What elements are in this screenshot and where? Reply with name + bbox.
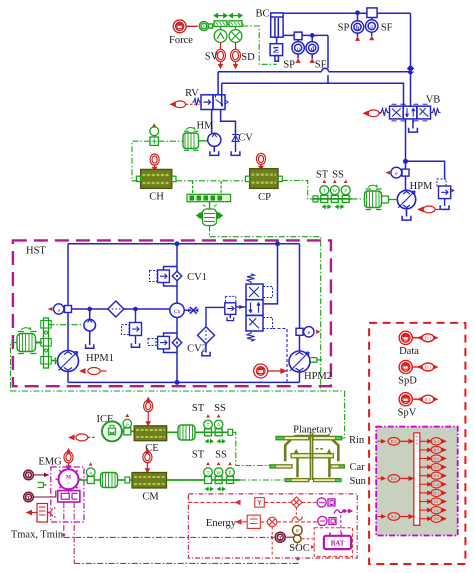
charge pump	[84, 307, 96, 348]
planetary gear set	[270, 433, 344, 482]
svg-text:SOC: SOC	[289, 543, 309, 554]
controller block CP	[245, 169, 282, 189]
EMG control box	[51, 467, 84, 522]
force source Force	[173, 20, 198, 33]
vertical links row1-row2	[272, 507, 296, 556]
sensor SF top right	[366, 8, 378, 36]
shaft EMG to motor row2	[79, 479, 101, 481]
motor EMG	[56, 466, 82, 492]
svg-text:J:3: J:3	[434, 516, 439, 521]
wire green dash engine to bottom line	[11, 343, 18, 391]
double arrows below shaft	[323, 205, 344, 208]
mux output S:1	[420, 455, 446, 462]
wire green dash CH to CP	[176, 180, 245, 182]
svg-text:θ: θ	[296, 529, 299, 535]
svg-text:SS: SS	[332, 170, 344, 181]
pilot valve small	[225, 296, 246, 320]
signal ellipse A1 to ICE	[70, 434, 97, 441]
hydraulic motor HM (green)	[183, 127, 208, 150]
svg-text:M: M	[272, 46, 281, 53]
shaft row1	[201, 429, 233, 435]
svg-text:C:4: C:4	[433, 482, 439, 487]
svg-text:S:1: S:1	[391, 514, 397, 519]
svg-text:SpV: SpV	[398, 408, 417, 419]
svg-text:SF: SF	[381, 23, 393, 34]
signal ellipse above CP	[256, 153, 265, 170]
pump circle of HM	[208, 133, 221, 155]
arrowheads magenta	[62, 534, 66, 537]
filter diamond	[108, 301, 124, 317]
mass block SD sensor assembly	[229, 14, 244, 43]
svg-text:Data: Data	[399, 346, 419, 357]
wire blue HST main loop	[68, 242, 300, 384]
sensor p row2	[86, 468, 95, 484]
sensor W	[330, 186, 339, 203]
relief valve RV	[192, 95, 235, 134]
speed sensor on HM shaft	[150, 127, 159, 146]
row1 gain Y	[188, 497, 316, 508]
orifice Ch	[170, 303, 184, 317]
mux output H:1	[420, 489, 446, 496]
svg-text:D:1: D:1	[391, 476, 397, 481]
green shaft stub HPM2	[311, 358, 323, 363]
signal ellipse V1	[171, 101, 200, 108]
wire blue main top line	[283, 12, 411, 14]
SpD source	[399, 360, 437, 373]
accumulator component	[197, 202, 223, 226]
dashed links to BAT	[297, 539, 314, 548]
mux output C:4	[420, 481, 446, 488]
MUX sage panel	[376, 427, 458, 536]
svg-text:F: F	[202, 25, 205, 30]
svg-text:S:2: S:2	[434, 465, 439, 470]
engine block in HST	[17, 327, 42, 353]
sensor e2 near HPM2	[296, 327, 314, 337]
svg-text:B:1: B:1	[433, 447, 439, 452]
sensor P row2	[226, 468, 235, 484]
wire green dash sensor to HM and to CH	[132, 141, 183, 181]
brake cylinder BC	[271, 13, 283, 44]
svg-text:VB: VB	[426, 95, 441, 106]
rotary inertia row1	[178, 425, 201, 440]
svg-text:W: W	[216, 471, 221, 476]
Tmax Tmin limit block	[27, 504, 56, 523]
engine ICE	[102, 421, 124, 441]
data acquisition box	[369, 323, 465, 564]
svg-text:S:3: S:3	[434, 473, 439, 478]
battery sub box	[314, 528, 352, 557]
sensor SV	[216, 42, 226, 68]
directional valve in HST	[246, 274, 287, 383]
svg-text:SV: SV	[205, 52, 219, 63]
mass block SV sensor assembly	[214, 14, 229, 43]
MUX bar	[414, 433, 420, 525]
wire green dash CP to shaft	[282, 181, 312, 199]
controller block CM	[132, 473, 167, 489]
signal ellipse above CH	[150, 154, 159, 171]
check valve CV1	[150, 267, 182, 287]
wire blue BC side line	[283, 34, 328, 36]
svg-text:EMG: EMG	[38, 457, 62, 468]
svg-text:ST: ST	[192, 403, 205, 414]
svg-text:A: A	[217, 424, 221, 429]
shaft CE to motor	[167, 431, 178, 433]
signal ellipse W above CE	[144, 398, 153, 425]
svg-text:Ch: Ch	[174, 309, 181, 315]
T sensor SOC	[275, 532, 293, 542]
svg-text:H:1: H:1	[433, 490, 439, 495]
svg-text:o: o	[370, 25, 373, 31]
svg-text:Energy: Energy	[206, 518, 237, 529]
svg-text:o: o	[297, 46, 300, 52]
inverter box	[58, 489, 80, 502]
signal ellipse W above EMG	[64, 449, 73, 469]
sensor SP top right	[351, 11, 363, 37]
row2 divide	[237, 515, 318, 528]
svg-text:CH: CH	[149, 192, 164, 203]
battery BAT	[324, 533, 351, 550]
sensor p after ICE	[123, 419, 132, 435]
svg-text:BC: BC	[255, 9, 269, 20]
signal ellipse 3d to HPM	[419, 206, 442, 213]
summing bar	[187, 181, 231, 202]
wire green dash shaft to motor	[352, 198, 364, 200]
svg-text:CP: CP	[258, 192, 271, 203]
svg-text:HM: HM	[197, 121, 215, 132]
filter2 diamond with tank	[198, 307, 225, 355]
sensor T	[320, 186, 329, 203]
wire blue down to VB supply	[327, 35, 329, 83]
mux output B:1	[420, 446, 446, 453]
mux input S:1	[378, 513, 414, 521]
relief valve right of HPM	[437, 179, 454, 209]
wire green dash main mech line	[11, 391, 345, 438]
svg-text:D:1: D:1	[425, 365, 432, 370]
charge relief valve	[122, 307, 142, 347]
svg-text:T: T	[206, 424, 209, 429]
svg-text:SP: SP	[338, 23, 350, 34]
sensor SP brake pressure	[292, 32, 304, 58]
svg-text:~: ~	[67, 481, 70, 487]
shaft row2 continues	[212, 479, 241, 481]
svg-text:RV: RV	[185, 88, 199, 99]
svg-text:CV2: CV2	[187, 344, 207, 355]
sensor W row2	[214, 468, 223, 484]
svg-text:CV1: CV1	[187, 272, 207, 283]
svg-text:D:1: D:1	[425, 336, 432, 341]
svg-text:Sun: Sun	[350, 476, 367, 487]
svg-text:W: W	[332, 190, 337, 195]
shaft CM to sensors row2	[167, 479, 205, 481]
signal ellipse V2 to VB	[364, 110, 386, 117]
mux input D:1	[378, 475, 414, 483]
svg-text:HPM1: HPM1	[86, 353, 114, 364]
svg-text:T: T	[323, 190, 326, 195]
pump HPM	[397, 190, 415, 220]
row2 magenta sink	[318, 516, 336, 525]
svg-text:SP: SP	[283, 60, 295, 71]
wire green dash row1 to carrier	[233, 432, 278, 465]
SpV source	[399, 393, 437, 406]
sensor A row1	[214, 420, 223, 436]
svg-text:HPM: HPM	[410, 181, 433, 192]
svg-text:J:2: J:2	[434, 508, 439, 513]
svg-text:P: P	[229, 471, 232, 476]
mux input D:1	[378, 438, 414, 446]
svg-text:SD: SD	[241, 52, 255, 63]
magenta squiggle	[334, 509, 352, 535]
svg-text:CV: CV	[238, 133, 253, 144]
svg-text:SS: SS	[214, 403, 226, 414]
sensor SD	[231, 42, 241, 68]
svg-text:S:1: S:1	[434, 456, 439, 461]
svg-text:CM: CM	[142, 492, 159, 503]
Data source	[399, 331, 437, 344]
mux output S:3	[420, 472, 446, 479]
green stub left of EMG	[38, 483, 47, 488]
junction node	[408, 66, 414, 75]
wire crossing bump on RV line	[322, 68, 329, 71]
double arrows below row1	[206, 440, 226, 443]
row1 magenta source	[317, 498, 335, 507]
svg-text:Force: Force	[169, 35, 193, 46]
T input circles to EMG	[24, 470, 48, 480]
svg-text:BAT: BAT	[331, 540, 345, 548]
svg-text:ST: ST	[192, 450, 205, 461]
svg-text:SpD: SpD	[398, 376, 417, 387]
svg-text:Tmax, Tmin: Tmax, Tmin	[11, 530, 64, 541]
wave symbol	[292, 517, 303, 522]
controller block CH	[136, 169, 176, 188]
pump HPM1	[58, 351, 79, 372]
mass M	[270, 44, 283, 61]
wire magenta EMG control lines	[64, 502, 298, 563]
svg-text:ST: ST	[316, 170, 329, 181]
bright shaft stubs	[270, 437, 344, 482]
wire green dash engine to charge pump	[49, 324, 84, 326]
sensor T row1	[204, 420, 213, 436]
check valve CV2	[148, 333, 182, 353]
directional valve VB	[379, 104, 440, 161]
HST boundary box	[13, 240, 331, 386]
svg-text:J:1: J:1	[434, 499, 439, 504]
check valve CV	[231, 133, 240, 156]
mux output J:1	[420, 498, 446, 505]
node F (green force input)	[199, 21, 212, 30]
wire shaft ICE to CE	[131, 430, 134, 432]
valve X right of Ch	[184, 307, 198, 314]
signal ellipse 1M to HPM1	[81, 368, 107, 375]
mux output S:2	[420, 464, 446, 471]
svg-text:HST: HST	[26, 246, 46, 257]
svg-text:P: P	[344, 190, 347, 195]
energy management box	[188, 494, 357, 558]
svg-text:A:1: A:1	[433, 439, 439, 444]
mux output A:1	[420, 438, 446, 445]
wire green dash from SD assembly to mass M	[242, 26, 276, 64]
wire blue RV supply lines	[218, 13, 410, 106]
pump HPM2	[289, 351, 310, 372]
svg-text:D:1: D:1	[391, 439, 397, 444]
sensor a on HPM1 line	[54, 304, 72, 314]
wire green dash accumulator down and to right	[210, 226, 321, 392]
svg-text:S:1: S:1	[425, 397, 431, 402]
sensor T row2	[204, 468, 213, 484]
svg-text:Rin: Rin	[349, 435, 365, 446]
svg-text:Car: Car	[350, 462, 366, 473]
svg-text:SS: SS	[215, 450, 227, 461]
mux output J:3	[420, 515, 446, 522]
wire blue HPM supply	[404, 160, 445, 191]
wire green dash row2 to sun	[240, 479, 285, 481]
sensor P	[341, 186, 350, 203]
shaft through sensors	[313, 196, 352, 202]
rotary load motor (green)	[365, 185, 398, 210]
signal ellipse W above CM	[143, 449, 152, 472]
sensor SF brake	[306, 34, 318, 59]
sensor e on HPM line	[391, 167, 409, 178]
rotary inertia row2	[101, 473, 133, 488]
signal theta to HPM2	[254, 364, 286, 378]
svg-text:T: T	[206, 471, 209, 476]
svg-text:HPM2: HPM2	[304, 371, 332, 382]
charge line	[72, 308, 178, 310]
flange shaft column	[41, 318, 58, 368]
controller block CE	[134, 426, 167, 441]
mux output J:2	[420, 507, 446, 514]
theta sensor stack	[293, 525, 303, 542]
double arrows below row2	[206, 488, 226, 491]
